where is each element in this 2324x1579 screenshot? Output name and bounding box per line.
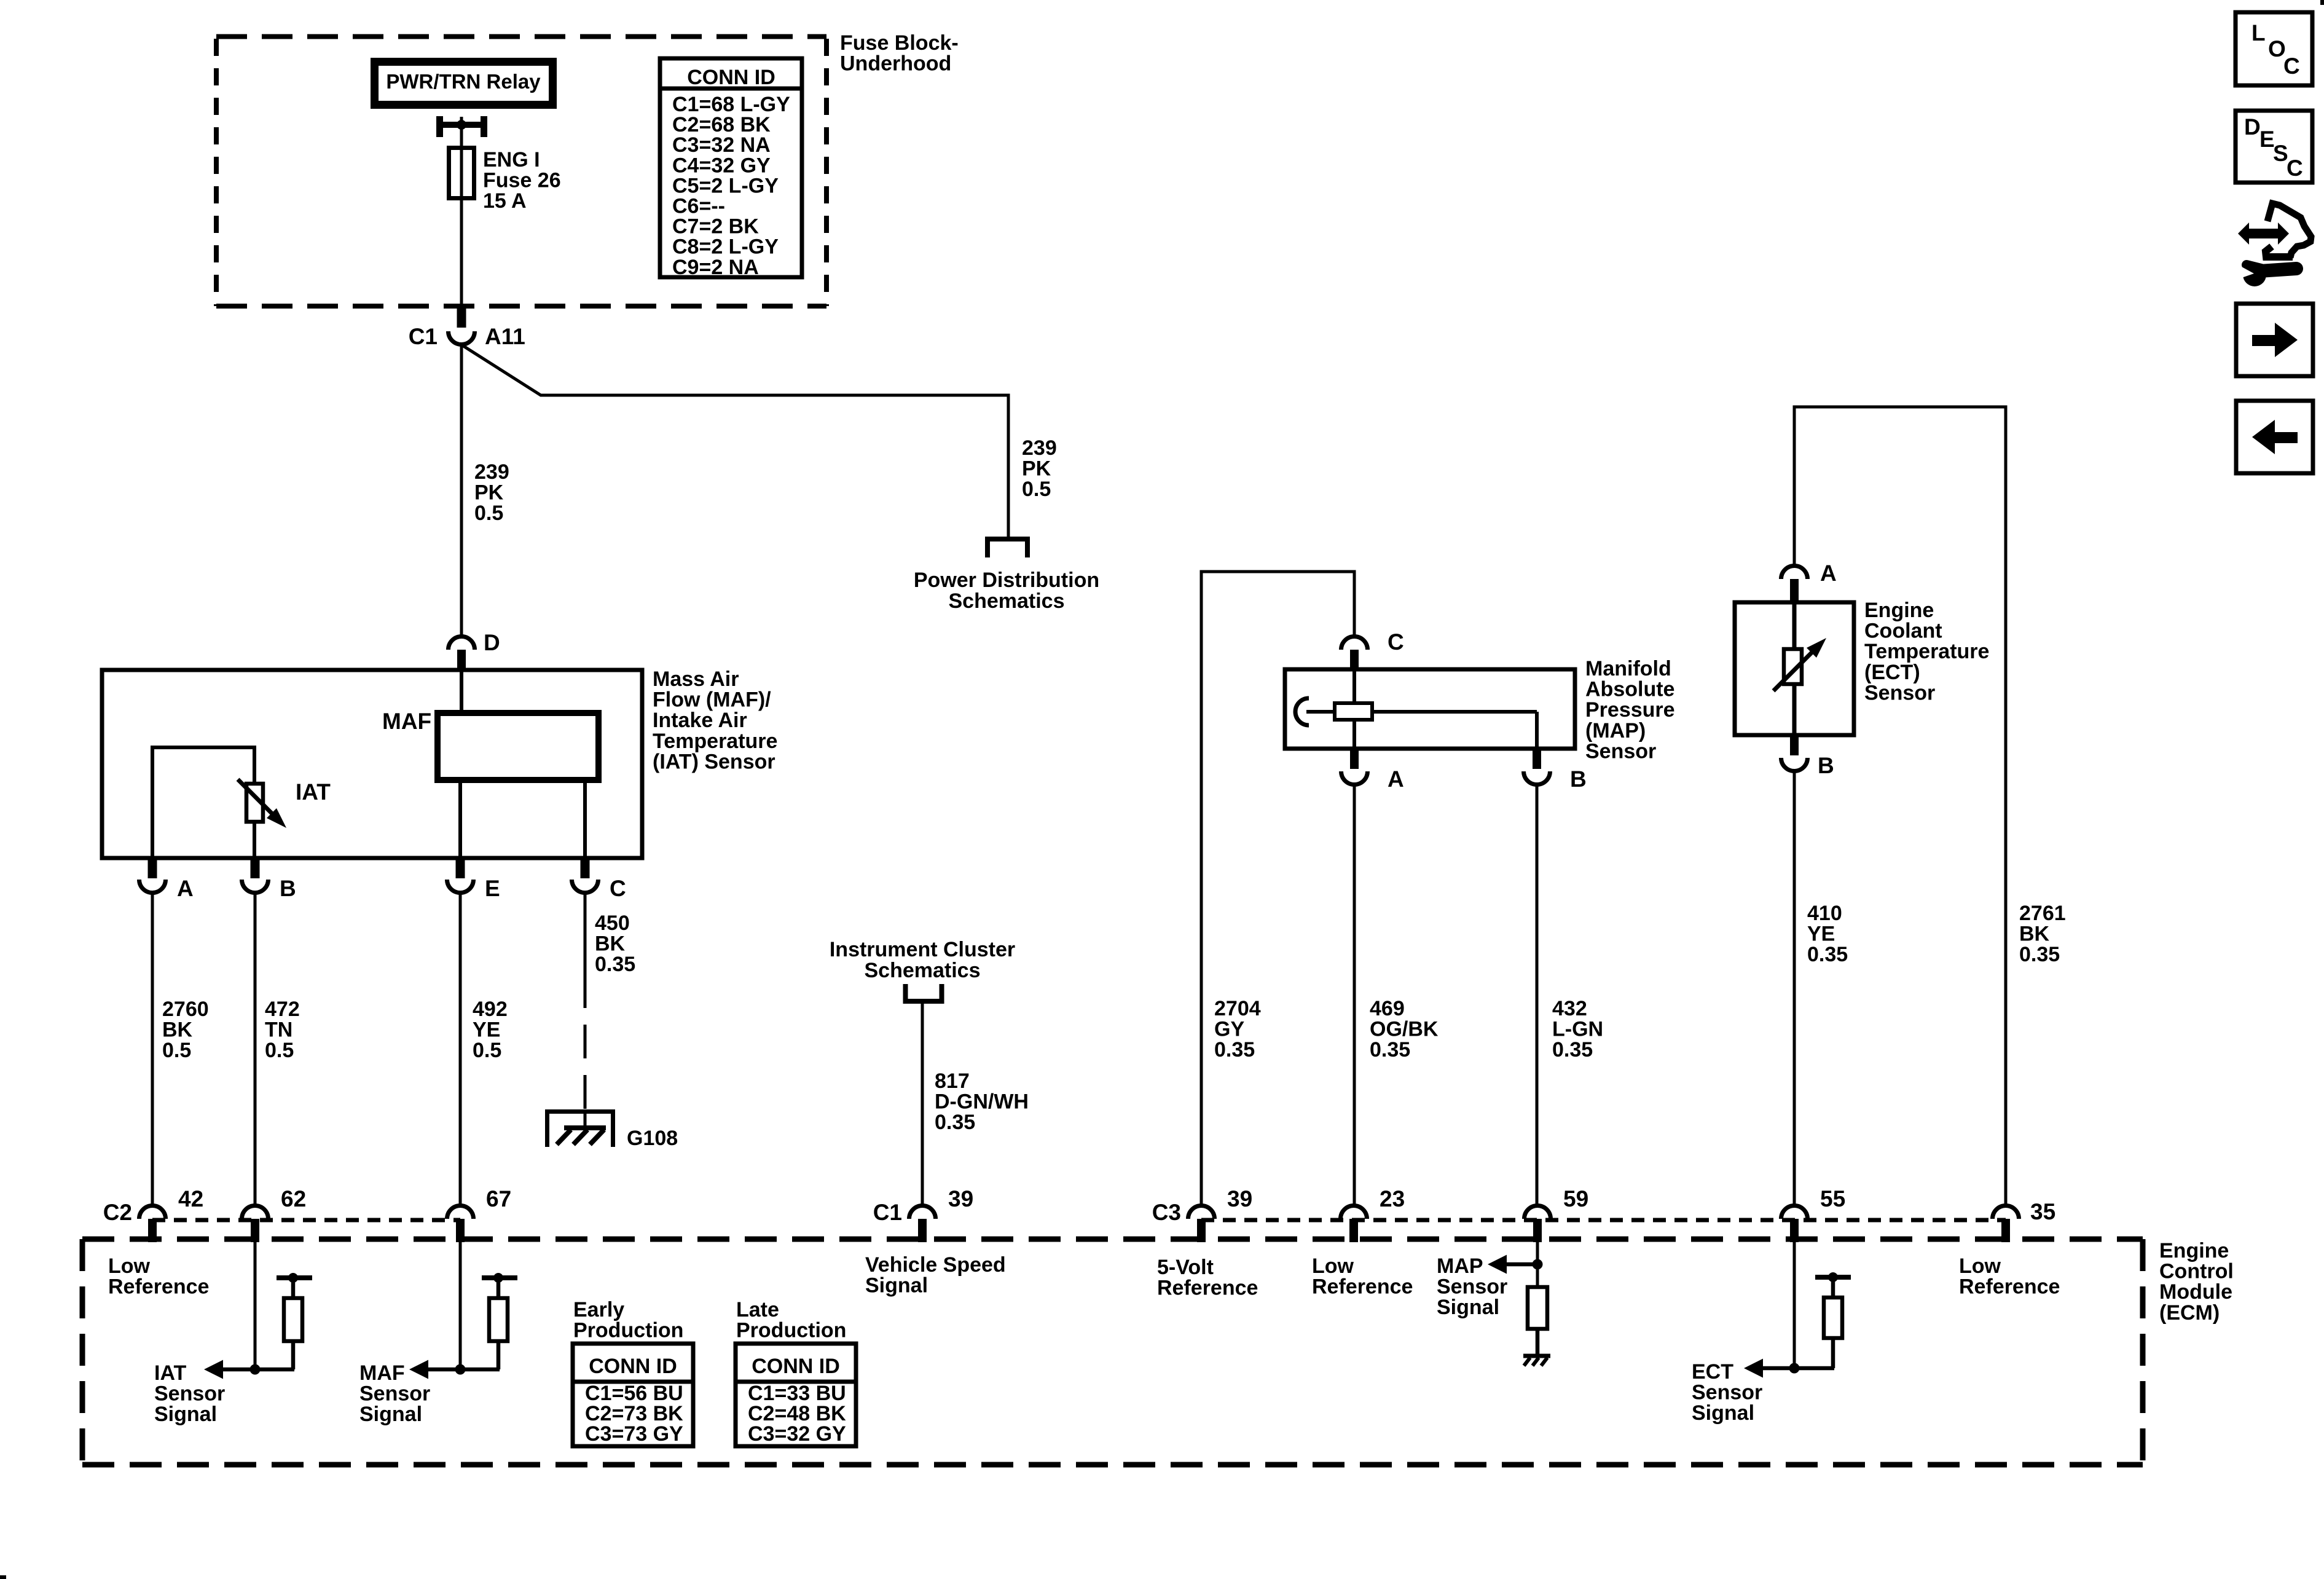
icon vehicle with double arrow and wrench (2267, 203, 2311, 258)
ECT connector A (1781, 566, 1808, 580)
svg-text:B: B (1818, 753, 1834, 778)
svg-text:C1: C1 (409, 324, 438, 349)
svg-text:0.35: 0.35 (1807, 943, 1848, 966)
svg-text:TN: TN (265, 1018, 292, 1042)
svg-text:492: 492 (473, 998, 508, 1021)
svg-text:(IAT) Sensor: (IAT) Sensor (653, 750, 775, 773)
svg-text:Reference: Reference (1157, 1277, 1258, 1300)
svg-text:IAT: IAT (154, 1361, 186, 1385)
svg-text:E: E (485, 876, 500, 901)
CONN ID table (fuse block) (660, 58, 802, 277)
svg-text:Engine: Engine (1864, 599, 1934, 622)
relay K PWR/TRN Relay (371, 58, 557, 109)
svg-text:Production: Production (736, 1319, 846, 1342)
svg-text:0.35: 0.35 (935, 1111, 975, 1134)
svg-text:Temperature: Temperature (1864, 640, 1989, 663)
icon box LOC (2236, 12, 2312, 85)
svg-text:Sensor: Sensor (1692, 1381, 1762, 1404)
ECM pin connector dotted lines (152, 1218, 460, 1223)
svg-text:42: 42 (178, 1186, 203, 1211)
svg-text:C3=32 GY: C3=32 GY (748, 1422, 846, 1446)
svg-text:239: 239 (474, 460, 509, 484)
connector C1 pin A11 (457, 307, 466, 328)
svg-text:(ECM): (ECM) (2159, 1301, 2220, 1325)
ECT pin B (1790, 735, 1799, 755)
svg-text:0.5: 0.5 (265, 1039, 294, 1062)
svg-text:PK: PK (1022, 457, 1051, 481)
svg-text:E: E (2259, 127, 2275, 152)
MAF pin B (251, 858, 260, 878)
MAP sensing element (1335, 703, 1372, 720)
ECT internal wire (1792, 602, 1797, 735)
icon box next page arrow (2236, 304, 2313, 376)
svg-text:Instrument Cluster: Instrument Cluster (830, 938, 1015, 961)
svg-text:Reference: Reference (1312, 1275, 1413, 1299)
svg-text:Fuse 26: Fuse 26 (483, 169, 561, 192)
svg-text:C2: C2 (103, 1200, 132, 1225)
MAP internal socket arc (1295, 698, 1309, 725)
svg-text:Signal: Signal (359, 1403, 422, 1426)
svg-text:D-GN/WH: D-GN/WH (935, 1090, 1029, 1114)
IAT thermistor internal wiring (152, 746, 254, 749)
svg-text:A: A (177, 876, 194, 901)
icon box DESC (2236, 111, 2312, 183)
connector D at MAF/IAT sensor (449, 637, 475, 650)
svg-text:Sensor: Sensor (1437, 1275, 1507, 1299)
svg-text:Pressure: Pressure (1585, 698, 1675, 722)
internal ground for MAP resistor (1523, 1354, 1550, 1358)
svg-text:C: C (2283, 53, 2300, 79)
wire MAF element to pin C (583, 780, 587, 858)
wire 472 TN pin B to ECM 62 (254, 894, 257, 1206)
IAT sensor signal circuit in ECM (254, 1242, 257, 1369)
svg-text:0.35: 0.35 (1370, 1038, 1410, 1061)
thermistor RT ECT (1784, 649, 1802, 684)
svg-text:IAT: IAT (296, 779, 331, 805)
svg-text:BK: BK (2019, 923, 2050, 946)
svg-text:C: C (610, 876, 626, 901)
wire from relay to fuse (460, 125, 463, 306)
wire 492 YE pin E to ECM 67 (459, 894, 462, 1206)
svg-text:Early: Early (573, 1298, 624, 1321)
svg-text:2760: 2760 (162, 998, 209, 1021)
icon box previous page arrow (2236, 401, 2313, 473)
svg-text:0.35: 0.35 (595, 953, 635, 976)
CONN ID table early production (573, 1344, 693, 1446)
MAP sensor signal circuit in ECM (1536, 1242, 1539, 1290)
wire branch 239 PK to power distribution (461, 345, 1008, 538)
svg-text:239: 239 (1022, 436, 1057, 460)
svg-text:0.5: 0.5 (473, 1039, 501, 1062)
svg-text:C: C (2287, 156, 2303, 181)
svg-text:Signal: Signal (1692, 1401, 1754, 1425)
thermistor RT IAT (246, 784, 263, 822)
svg-text:Control: Control (2159, 1260, 2234, 1283)
ECT sensor box (1735, 602, 1854, 735)
svg-text:Fuse Block-: Fuse Block- (840, 31, 959, 55)
MAP sensor internal lines (1352, 669, 1356, 749)
MAP pin B (1533, 749, 1541, 769)
svg-text:CONN ID: CONN ID (589, 1355, 677, 1378)
relay contact symbol (436, 116, 443, 137)
svg-text:Temperature: Temperature (653, 730, 777, 753)
svg-text:C1: C1 (873, 1200, 902, 1225)
svg-text:Sensor: Sensor (359, 1382, 430, 1406)
svg-text:450: 450 (595, 912, 630, 935)
wire MAF element to pin E (458, 780, 462, 858)
svg-text:5-Volt: 5-Volt (1157, 1256, 1214, 1279)
svg-text:D: D (2244, 114, 2261, 140)
svg-text:ENG I: ENG I (483, 148, 540, 171)
svg-text:39: 39 (948, 1186, 973, 1211)
svg-text:Sensor: Sensor (154, 1382, 225, 1406)
svg-text:A: A (1388, 766, 1404, 792)
svg-text:Late: Late (736, 1298, 779, 1321)
svg-text:G108: G108 (627, 1127, 678, 1150)
ground G108 (584, 1110, 587, 1127)
svg-text:BK: BK (595, 932, 626, 956)
ECM dashed border (Engine Control Module) (82, 1239, 2143, 1465)
ECM pin 23 (1341, 1206, 1367, 1219)
svg-text:0.35: 0.35 (1214, 1038, 1255, 1061)
CONN ID table late production (736, 1344, 856, 1446)
MAP connector C (1341, 637, 1368, 650)
svg-text:MAP: MAP (1437, 1254, 1483, 1278)
svg-text:D: D (484, 630, 500, 655)
MAP sensor box (1285, 669, 1575, 749)
svg-text:432: 432 (1552, 997, 1587, 1020)
svg-text:Low: Low (108, 1254, 151, 1278)
wire 410 YE ECT B to ECM 55 (1793, 771, 1796, 1206)
svg-text:0.5: 0.5 (1022, 478, 1051, 501)
svg-text:PWR/TRN Relay: PWR/TRN Relay (386, 70, 541, 93)
svg-text:CONN ID: CONN ID (752, 1355, 840, 1378)
svg-text:Mass Air: Mass Air (653, 667, 739, 691)
svg-text:Power Distribution: Power Distribution (914, 569, 1099, 592)
svg-text:59: 59 (1563, 1186, 1588, 1211)
svg-text:Schematics: Schematics (949, 589, 1065, 613)
svg-text:0.35: 0.35 (1552, 1038, 1593, 1061)
pull-up resistor R IAT (277, 1275, 312, 1280)
ECM pin 39 connector C1 (909, 1206, 935, 1219)
svg-text:BK: BK (162, 1018, 193, 1042)
svg-text:Sensor: Sensor (1864, 681, 1935, 704)
svg-text:Coolant: Coolant (1864, 620, 1942, 643)
svg-text:(ECT): (ECT) (1864, 661, 1920, 684)
svg-text:Absolute: Absolute (1585, 678, 1674, 701)
ECM pin 62 (242, 1206, 269, 1219)
svg-text:0.5: 0.5 (162, 1039, 191, 1062)
off-page bracket from Instrument Cluster (906, 984, 942, 1001)
svg-text:B: B (280, 876, 296, 901)
svg-text:Engine: Engine (2159, 1239, 2229, 1262)
svg-text:0.5: 0.5 (474, 502, 503, 525)
svg-text:469: 469 (1370, 997, 1405, 1020)
wire 239 PK to MAF sensor (460, 344, 463, 637)
svg-text:GY: GY (1214, 1018, 1244, 1041)
svg-text:Reference: Reference (108, 1275, 209, 1299)
svg-text:62: 62 (281, 1186, 306, 1211)
wire D to MAF element (460, 672, 463, 713)
svg-text:Low: Low (1959, 1254, 2001, 1278)
svg-text:Manifold: Manifold (1585, 657, 1671, 680)
MAP pin A (1350, 749, 1359, 769)
svg-text:YE: YE (473, 1018, 500, 1042)
ECT sensor signal circuit in ECM (1793, 1242, 1796, 1368)
svg-text:Flow (MAF)/: Flow (MAF)/ (653, 688, 771, 712)
wire 817 D-GN/WH to ECM 39 (921, 1001, 924, 1206)
svg-text:2704: 2704 (1214, 997, 1261, 1020)
ECM pin 42 connector C2 (139, 1206, 166, 1219)
svg-text:Low: Low (1312, 1254, 1354, 1278)
svg-text:Signal: Signal (1437, 1296, 1499, 1319)
fuse F ENG I Fuse 26 15A (449, 148, 474, 199)
wire 450 BK pin C to ground (584, 894, 587, 974)
wire 432 L-GN MAP B to ECM 59 (1536, 784, 1539, 1206)
MAF pin A (148, 858, 157, 878)
svg-text:Reference: Reference (1959, 1275, 2060, 1299)
svg-text:(MAP): (MAP) (1585, 719, 1646, 742)
MAF/IAT sensor box (102, 670, 642, 858)
wire 2704 GY ECM C3-39 to MAP pin C (1201, 572, 1354, 1206)
MAF pin C (581, 858, 590, 878)
svg-text:Schematics: Schematics (865, 959, 981, 982)
MAF pin E (456, 858, 465, 878)
svg-text:OG/BK: OG/BK (1370, 1018, 1439, 1041)
svg-text:35: 35 (2030, 1199, 2055, 1224)
off-page bracket to Power Distribution (987, 539, 1027, 557)
svg-text:39: 39 (1227, 1186, 1252, 1211)
ECM pin 39 connector C3 (1188, 1206, 1215, 1219)
ECM pin 67 (447, 1206, 474, 1219)
svg-text:817: 817 (935, 1069, 970, 1093)
svg-text:55: 55 (1820, 1186, 1845, 1211)
svg-text:C3=73 GY: C3=73 GY (585, 1422, 683, 1446)
pull-up resistor R MAF (482, 1275, 517, 1280)
svg-text:Module: Module (2159, 1280, 2232, 1304)
svg-text:C3: C3 (1152, 1200, 1181, 1225)
svg-text:Production: Production (573, 1319, 683, 1342)
svg-text:23: 23 (1380, 1186, 1405, 1211)
svg-text:L-GN: L-GN (1552, 1018, 1603, 1041)
svg-text:Sensor: Sensor (1585, 739, 1656, 763)
wire 469 OG/BK MAP A to ECM 23 (1353, 784, 1356, 1206)
svg-text:MAF: MAF (382, 709, 431, 734)
pull-up resistor R ECT (1815, 1275, 1851, 1280)
svg-text:L: L (2251, 20, 2266, 45)
wire 2760 BK pin A to ECM 42 (151, 894, 154, 1206)
svg-text:Intake Air: Intake Air (653, 709, 747, 732)
svg-text:2761: 2761 (2019, 902, 2066, 925)
svg-text:410: 410 (1807, 902, 1842, 925)
svg-text:A: A (1820, 561, 1837, 586)
svg-text:PK: PK (474, 481, 504, 505)
svg-text:472: 472 (265, 998, 300, 1021)
svg-text:C: C (1388, 629, 1404, 655)
ECM pin 35 (1993, 1206, 2019, 1219)
MAF sensor signal circuit in ECM (459, 1242, 462, 1369)
svg-text:A11: A11 (485, 324, 525, 349)
pull-down resistor R MAP (1528, 1287, 1547, 1329)
MAF element box (438, 713, 599, 780)
fuse block dashed box (Fuse Block - Underhood) (216, 37, 826, 307)
svg-text:C9=2 NA: C9=2 NA (672, 256, 759, 279)
svg-text:CONN ID: CONN ID (687, 66, 775, 89)
svg-text:15 A: 15 A (483, 189, 527, 213)
svg-text:Vehicle Speed: Vehicle Speed (865, 1253, 1006, 1277)
svg-text:ECT: ECT (1692, 1360, 1733, 1384)
svg-text:Underhood: Underhood (840, 52, 951, 76)
svg-text:0.35: 0.35 (2019, 943, 2060, 966)
svg-text:MAF: MAF (359, 1361, 405, 1385)
svg-text:B: B (1570, 766, 1587, 792)
ECM pin 55 (1781, 1206, 1808, 1219)
svg-text:Signal: Signal (865, 1274, 928, 1297)
svg-text:67: 67 (486, 1186, 511, 1211)
ECT sensor top loop wire (1794, 407, 2006, 1206)
page corner mark (0, 1575, 6, 1579)
svg-text:YE: YE (1807, 923, 1835, 946)
ECM pin 59 (1525, 1206, 1551, 1219)
svg-text:Signal: Signal (154, 1403, 217, 1426)
svg-text:S: S (2273, 141, 2288, 166)
